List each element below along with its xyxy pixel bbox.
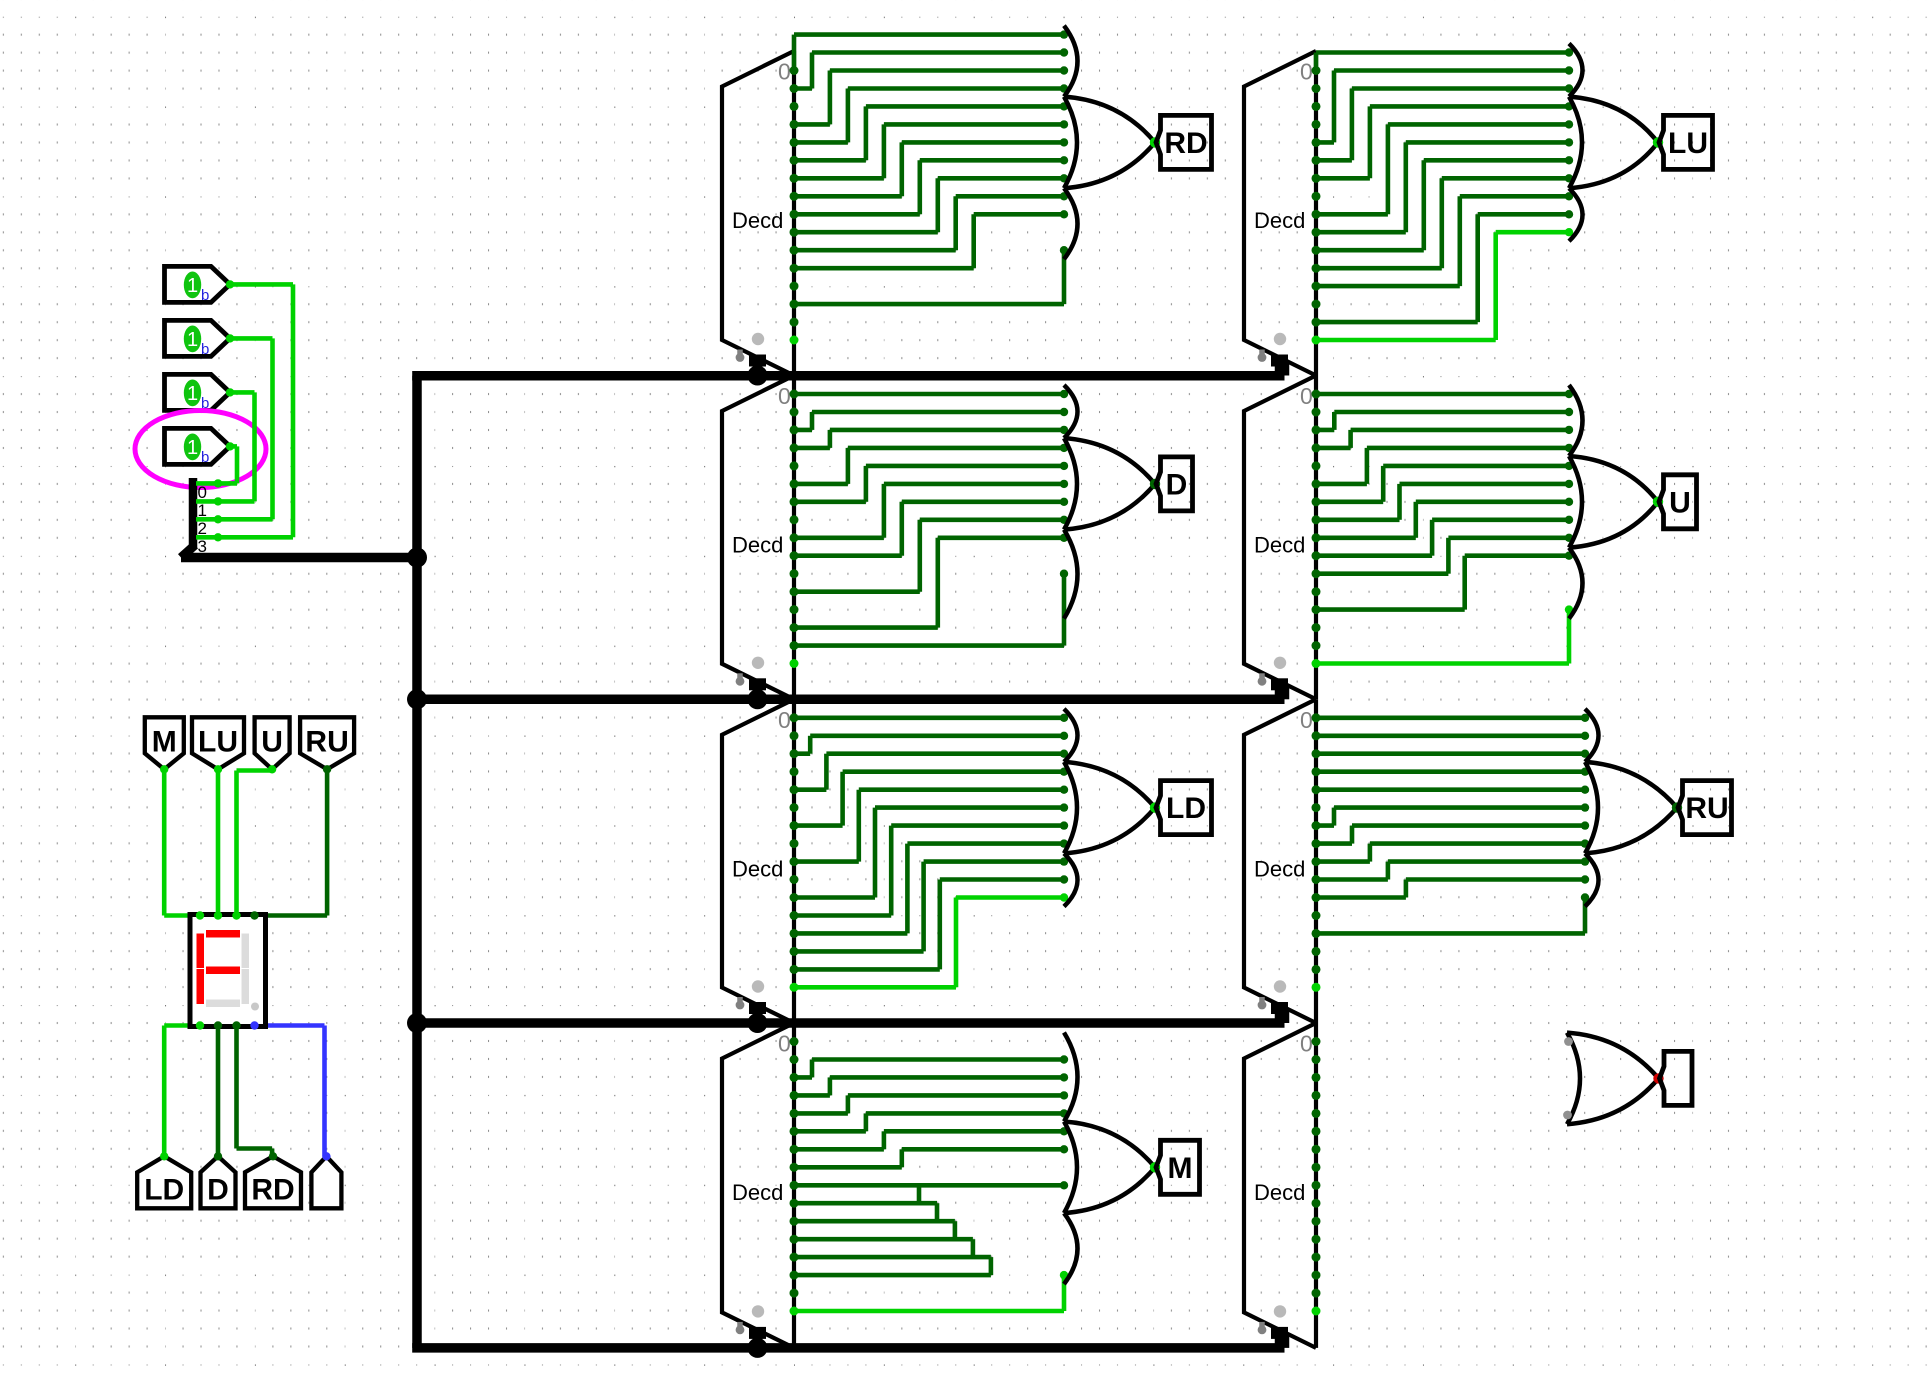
wire decoder2 output 9 to OR input 6 <box>794 553 902 558</box>
wire decoder1 output 1 to OR input 1 <box>794 86 812 91</box>
wire decoder2 output 14 routed below to OR input 10 <box>794 643 1064 648</box>
svg-text:0: 0 <box>778 1031 791 1057</box>
output pin D <box>1156 457 1193 511</box>
svg-text:0: 0 <box>1300 1031 1313 1057</box>
segment A (lit) <box>206 930 240 938</box>
svg-text:M: M <box>152 725 177 758</box>
wire decoder5 output 9 to OR input 5 <box>1316 230 1406 235</box>
svg-text:1: 1 <box>187 275 198 297</box>
wire decoder6 output 12 to OR input 9 <box>1316 607 1465 612</box>
wire decoder6 output 8 to OR input 6 <box>1316 535 1416 540</box>
wire decoder1 output 6 to OR input 5 <box>794 176 884 181</box>
decoder 6 output port dots <box>1312 390 1321 399</box>
wire decoder3 output 2 to OR input 1 <box>794 751 810 756</box>
wire decoder5 output 14 to OR input 9 <box>1316 320 1478 325</box>
decoder Decd2 <box>722 376 794 700</box>
input pin P2 (value 1) <box>165 320 231 356</box>
segment B (off) <box>242 934 250 969</box>
wire decoder4 output 5 to OR input 4 <box>794 1129 866 1134</box>
or-gate OR3 (LD) <box>1064 709 1078 762</box>
svg-text:Decd: Decd <box>732 208 783 233</box>
wire decoder7 output 9 to OR input 8 <box>1316 877 1388 882</box>
decoder Decd4 <box>722 1023 794 1348</box>
or-gate OR2 (D) <box>1064 385 1078 438</box>
segment F (lit) <box>197 934 205 969</box>
segment C (off) <box>242 969 250 1004</box>
wire decoder3 output 11 to OR input 6 <box>794 913 891 918</box>
svg-text:0: 0 <box>778 59 791 85</box>
output pin D (display block) <box>201 1156 236 1208</box>
input pin P4 (value 1) <box>165 428 231 464</box>
unlabeled output pin of OR8 <box>1660 1051 1693 1105</box>
wire decoder2 output 3 to OR input 2 <box>794 446 830 451</box>
wire pin P1 to splitter bit 3 <box>230 282 293 287</box>
output pin RD <box>1156 115 1212 169</box>
wire decoder3 straight row <box>794 715 1064 720</box>
wire decoder6 straight row <box>1316 392 1569 397</box>
wire decoder5 output 10 to OR input 6 <box>1316 248 1424 253</box>
segment E (lit) <box>197 969 205 1004</box>
wire display to RD pin <box>234 1026 239 1149</box>
decoder 4 output port dots <box>790 1037 799 1046</box>
svg-text:LD: LD <box>1166 792 1206 825</box>
svg-text:Decd: Decd <box>732 1180 783 1205</box>
wire decoder6 output 2 to OR input 1 <box>1316 428 1334 433</box>
svg-text:0: 0 <box>778 707 791 733</box>
or-gate OR4 (M) <box>1064 1033 1078 1122</box>
bus branch row 4 <box>412 1343 1284 1353</box>
svg-text:Decd: Decd <box>732 856 783 881</box>
decoder Decd3 <box>722 699 794 1023</box>
decoder 8 output port dots (unconnected) <box>1312 1037 1321 1046</box>
wire decoder1 output 7 to OR input 6 <box>794 194 902 199</box>
svg-text:M: M <box>1168 1152 1193 1185</box>
wire decoder7 output 12 routed below to OR input 10 <box>1316 931 1585 936</box>
wire decoder7 straight row <box>1316 769 1585 774</box>
wire decoder7 straight row <box>1316 733 1585 738</box>
wire decoder7 output 10 to OR input 9 <box>1316 895 1406 900</box>
wire decoder1 output 13 routed below to OR input 12 <box>794 302 1064 307</box>
wire decoder6 output 10 to OR input 8 <box>1316 571 1448 576</box>
segment G (lit) <box>206 967 240 975</box>
svg-text:0: 0 <box>198 483 207 502</box>
bus: main trunk vertical <box>412 376 422 1348</box>
wire decoder5 output 0 to OR input 0 <box>1314 53 1319 71</box>
wire decoder3 output 15 to OR input 10 <box>794 985 956 990</box>
wire decoder1 output 0 to OR input 0 <box>792 35 797 71</box>
output pin RD (display block) <box>245 1156 301 1208</box>
wire decoder2 output 11 to OR input 7 <box>794 589 920 594</box>
7-segment display <box>190 915 266 1027</box>
decimal point (off) <box>251 1003 259 1011</box>
wire pin P4 to splitter bit 0 <box>230 444 237 449</box>
svg-text:Decd: Decd <box>1254 208 1305 233</box>
decoder DecdR3 <box>1244 699 1316 1023</box>
output pin M (display block) <box>145 717 184 769</box>
wire decoder4 output 6 to OR input 5 <box>794 1147 884 1152</box>
wire decoder4 output 12 chain link <box>794 1255 991 1260</box>
svg-text:0: 0 <box>1300 383 1313 409</box>
select stub left column <box>753 364 763 376</box>
svg-text:Decd: Decd <box>1254 856 1305 881</box>
or-gate OR1 (RD) <box>1064 26 1078 97</box>
select stub left column <box>753 687 763 699</box>
select stub right column <box>1280 1334 1290 1348</box>
wire decoder7 straight row <box>1316 715 1585 720</box>
wire decoder1 output 10 to OR input 9 <box>794 248 956 253</box>
wire decoder2 output 6 to OR input 4 <box>794 499 866 504</box>
svg-text:Decd: Decd <box>732 533 783 558</box>
display top port dots <box>196 911 204 919</box>
svg-text:LU: LU <box>1668 127 1708 160</box>
decoder DecdR4 <box>1244 1023 1316 1348</box>
wire decoder4 output 15 routed below to OR input 13 <box>794 1309 1064 1314</box>
wire decoder1 output 4 to OR input 3 <box>794 140 848 145</box>
wire display to D pin <box>216 1026 221 1157</box>
bus branch row 1 <box>412 371 1284 381</box>
wire decoder6 output 5 to OR input 3 <box>1316 482 1367 487</box>
svg-text:0: 0 <box>1300 59 1313 85</box>
wire decoder4 output 11 chain link <box>794 1237 973 1242</box>
wire decoder2 output 2 to OR input 1 <box>794 428 812 433</box>
wire decoder3 output 8 to OR input 4 <box>794 859 859 864</box>
bus: splitter feed wire <box>181 553 417 563</box>
svg-text:D: D <box>207 1173 229 1206</box>
wire decoder2 straight row <box>794 392 1064 397</box>
input pin P3 (value 1) <box>165 374 231 410</box>
wire decoder6 output 7 to OR input 5 <box>1316 517 1400 522</box>
output pin U <box>1659 475 1697 529</box>
svg-text:LD: LD <box>144 1173 184 1206</box>
wire decoder6 output 15 routed below to OR input 12 <box>1316 661 1569 666</box>
or-gate OR5 (LU) <box>1569 44 1583 97</box>
select stub right column <box>1280 685 1290 699</box>
decoder 1 output port dots <box>790 66 799 75</box>
wire decoder4 output 2 to OR input 1 <box>794 1075 812 1080</box>
splitter stub bit 2 <box>196 517 218 522</box>
wire decoder4 output 7 to OR input 6 <box>794 1165 902 1170</box>
svg-text:b: b <box>201 341 209 358</box>
wire decoder4 straight row <box>794 1183 1064 1188</box>
svg-text:LU: LU <box>198 725 238 758</box>
wire decoder7 straight row <box>1316 787 1585 792</box>
select stub left column <box>753 1336 763 1348</box>
wire pin P3 to splitter bit 1 <box>230 390 255 395</box>
svg-text:b: b <box>201 449 209 466</box>
svg-text:U: U <box>261 725 283 758</box>
wire RU pin to display <box>325 769 330 915</box>
wire decoder5 output 4 to OR input 1 <box>1316 140 1334 145</box>
wire decoder5 output 12 to OR input 8 <box>1316 284 1460 289</box>
output pin LD (display block) <box>137 1156 191 1208</box>
splitter stub bit 1 <box>196 499 218 504</box>
bus branch row 2 <box>417 695 1285 705</box>
wire decoder5 output 15 to OR input 10 <box>1316 338 1496 343</box>
output pin M <box>1156 1140 1200 1194</box>
select stub right column <box>1280 1009 1290 1023</box>
wire decoder1 output 8 to OR input 7 <box>794 212 920 217</box>
wire decoder3 output 14 to OR input 9 <box>794 967 940 972</box>
wire decoder4 output 3 to OR input 2 <box>794 1093 830 1098</box>
output pin U (display block) <box>255 717 290 769</box>
wire decoder7 straight row <box>1316 751 1585 756</box>
wire U pin to display <box>237 768 273 773</box>
decoder DecdR2 <box>1244 376 1316 700</box>
bus junction trunk row3 <box>407 1013 427 1033</box>
bus junction trunk row2 <box>407 689 427 709</box>
decoder 3 output port dots <box>790 713 799 722</box>
svg-text:1: 1 <box>187 329 198 351</box>
wire decoder2 output 8 to OR input 5 <box>794 535 884 540</box>
or-gate OR7 (RU) <box>1585 709 1599 762</box>
wire decoder5 output 11 to OR input 7 <box>1316 266 1442 271</box>
wire decoder4 output 13 chain link <box>794 1273 991 1278</box>
svg-text:1: 1 <box>187 383 198 405</box>
wire decoder1 output 9 to OR input 8 <box>794 230 938 235</box>
wire decoder5 output 5 to OR input 2 <box>1316 158 1352 163</box>
wire LU pin to display <box>216 769 221 915</box>
segment D (off) <box>206 1000 240 1008</box>
output pin RU (display block) <box>300 717 354 769</box>
svg-text:Decd: Decd <box>1254 533 1305 558</box>
svg-text:2: 2 <box>198 519 207 538</box>
svg-text:D: D <box>1166 468 1188 501</box>
wire decoder1 output 3 to OR input 2 <box>794 122 830 127</box>
wire decoder3 output 6 to OR input 3 <box>794 823 843 828</box>
bus branch row 3 <box>417 1018 1285 1028</box>
wire decoder6 output 3 to OR input 2 <box>1316 446 1351 451</box>
wire decoder3 output 13 to OR input 8 <box>794 949 924 954</box>
svg-text:RD: RD <box>1164 127 1207 160</box>
wire display to LD pin <box>164 1023 200 1028</box>
svg-text:1: 1 <box>187 437 198 459</box>
wire decoder6 output 6 to OR input 4 <box>1316 499 1383 504</box>
decoder 2 output port dots <box>790 390 799 399</box>
decoder 5 output port dots <box>1312 66 1321 75</box>
wire decoder2 output 13 to OR input 8 <box>794 625 938 630</box>
wire decoder1 output 5 to OR input 4 <box>794 158 866 163</box>
wire M pin to display <box>162 769 167 915</box>
svg-text:RU: RU <box>1685 792 1728 825</box>
select stub left column <box>753 1011 763 1023</box>
bus junction at trunk/splitter <box>407 548 427 568</box>
svg-text:U: U <box>1669 486 1691 519</box>
wire decoder3 output 10 to OR input 5 <box>794 895 875 900</box>
svg-text:3: 3 <box>198 537 207 556</box>
decoder Decd1 <box>722 51 794 376</box>
display bottom port dots <box>196 1021 204 1029</box>
output pin LU <box>1659 115 1713 169</box>
svg-text:RU: RU <box>305 725 348 758</box>
output pin LU (display block) <box>192 717 244 769</box>
wire decoder3 output 12 to OR input 7 <box>794 931 907 936</box>
gray floating input dots of OR8 <box>1564 1037 1573 1046</box>
splitter stub bit 0 <box>196 481 218 486</box>
output pin RU <box>1678 781 1732 835</box>
decoder 7 output port dots <box>1312 713 1321 722</box>
wire pin P2 to splitter bit 2 <box>230 336 273 341</box>
wire decoder7 output 7 to OR input 6 <box>1316 841 1352 846</box>
svg-text:RD: RD <box>251 1173 294 1206</box>
wire decoder4 output 10 chain link <box>794 1219 955 1224</box>
wire decoder7 output 8 to OR input 7 <box>1316 859 1370 864</box>
wire decoder4 output 9 chain link <box>794 1201 937 1206</box>
highlight ellipse around pin P4 <box>135 411 266 488</box>
decoder DecdR1 <box>1244 51 1316 376</box>
wire decoder3 output 4 to OR input 2 <box>794 787 826 792</box>
svg-text:0: 0 <box>778 383 791 409</box>
lone or-gate OR8 with floating inputs <box>1567 1033 1580 1125</box>
svg-text:0: 0 <box>1300 707 1313 733</box>
output pin LD <box>1156 781 1212 835</box>
input pin P1 (value 1) <box>165 266 231 302</box>
splitter stub bit 3 <box>196 535 218 540</box>
wire decoder7 output 6 to OR input 5 <box>1316 823 1334 828</box>
wire decoder5 output 8 to OR input 4 <box>1316 212 1388 217</box>
select stub right column <box>1280 362 1290 376</box>
wire decoder1 output 11 to OR input 10 <box>794 266 974 271</box>
floating blue wire display to blank pin <box>255 1023 325 1028</box>
output pin blank (display block) <box>311 1156 341 1208</box>
wire decoder2 output 5 to OR input 3 <box>794 482 848 487</box>
wire decoder6 output 9 to OR input 7 <box>1316 553 1432 558</box>
wire decoder5 output 6 to OR input 3 <box>1316 176 1370 181</box>
wire decoder4 output 4 to OR input 3 <box>794 1111 848 1116</box>
splitter <box>189 478 198 549</box>
or-gate OR6 (U) <box>1569 385 1583 456</box>
svg-text:Decd: Decd <box>1254 1180 1305 1205</box>
svg-text:b: b <box>201 287 209 304</box>
